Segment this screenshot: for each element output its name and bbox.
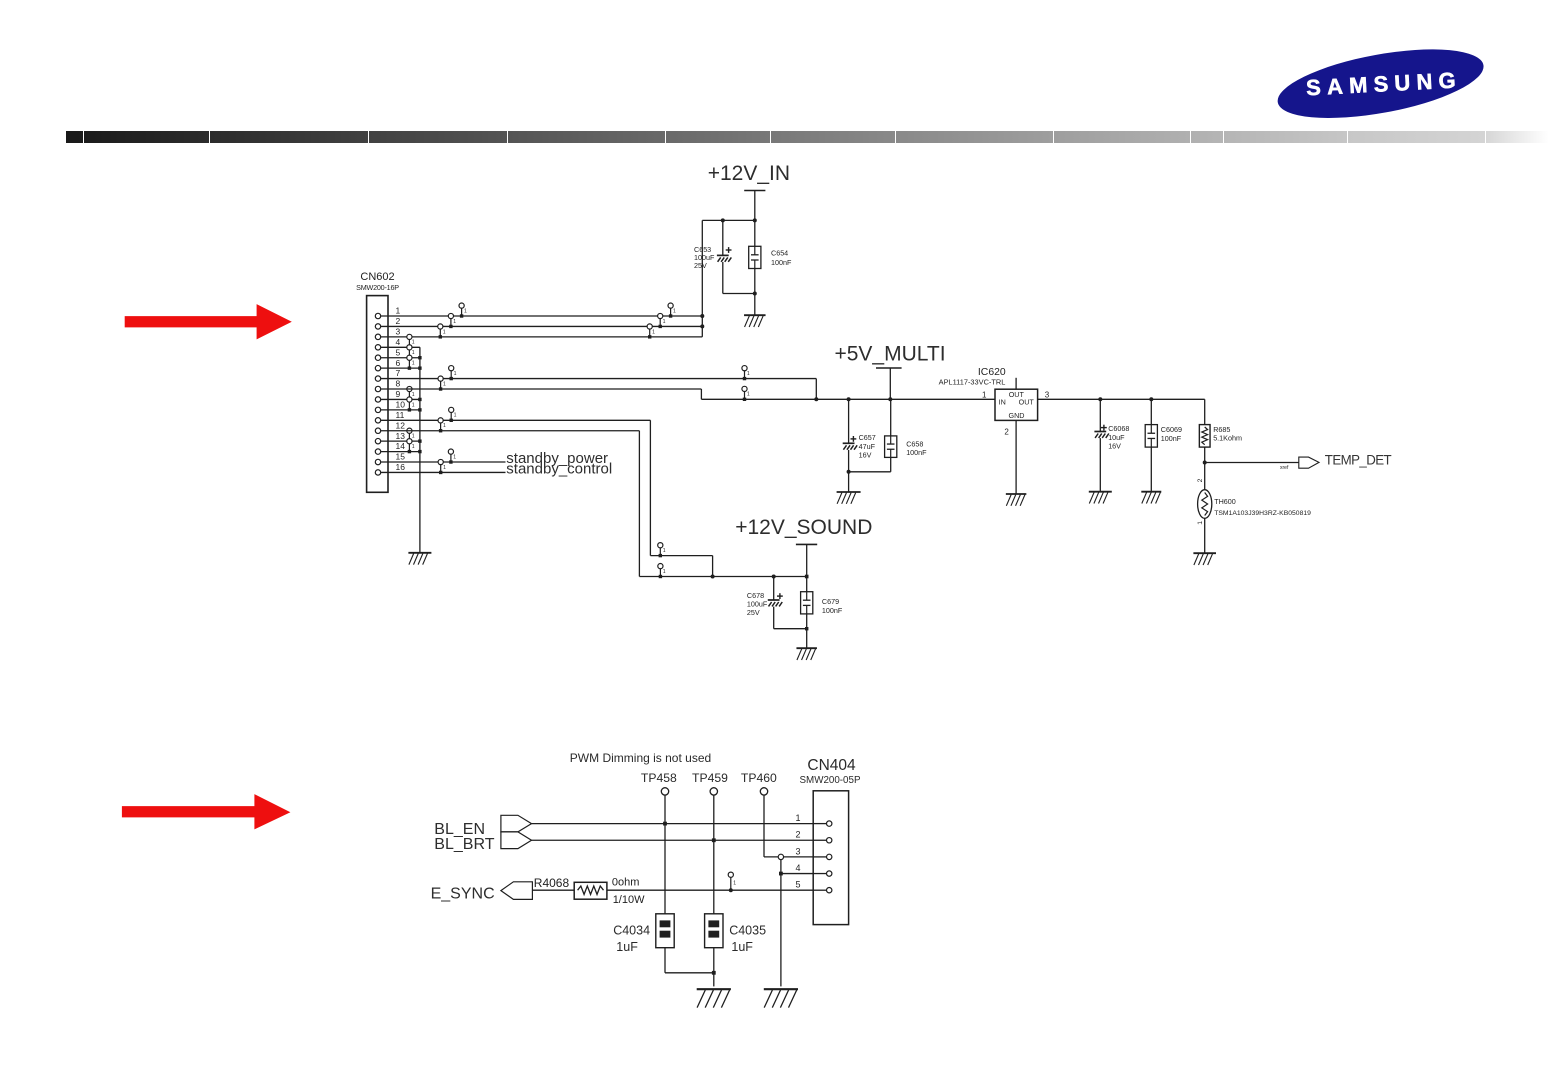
port flag BL_BRT [434, 832, 531, 853]
svg-text:TH600: TH600 [1214, 497, 1236, 506]
svg-text:15: 15 [396, 452, 406, 462]
svg-text:BL_BRT: BL_BRT [434, 836, 494, 853]
svg-text:APL1117-33VC-TRL: APL1117-33VC-TRL [939, 378, 1006, 387]
power symbol +12V_SOUND [735, 516, 872, 577]
svg-text:CN404: CN404 [807, 757, 856, 774]
svg-text:IN: IN [999, 398, 1006, 407]
svg-text:5: 5 [396, 347, 401, 357]
svg-text:1: 1 [663, 548, 666, 554]
port flag E_SYNC [431, 882, 533, 903]
ground under C4035 [697, 989, 731, 1007]
wire CN602 pin 16 standby_control [381, 459, 613, 477]
node TEMP_DET with xref flag [1203, 452, 1393, 471]
red arrow marker upper [0, 0, 400, 1080]
svg-text:SMW200-05P: SMW200-05P [800, 775, 861, 786]
svg-text:1: 1 [443, 423, 446, 429]
svg-text:1: 1 [412, 444, 415, 450]
svg-text:3: 3 [396, 326, 401, 336]
resistor R685 5.1Kohm [1199, 399, 1242, 462]
capacitor C679 100nF [801, 577, 843, 649]
wire CN602 pin 8, +5V rail into IC620 pin 1, with test beads [381, 376, 995, 401]
power symbol +12V_IN [708, 162, 790, 221]
svg-text:100nF: 100nF [1161, 434, 1182, 443]
capacitor C6068 10uF 16V (electrolytic) [1094, 399, 1129, 491]
svg-text:10: 10 [396, 399, 406, 409]
svg-text:1: 1 [453, 454, 456, 460]
svg-text:4: 4 [396, 337, 401, 347]
svg-text:2: 2 [795, 830, 800, 840]
svg-text:C6069: C6069 [1161, 425, 1182, 434]
svg-text:1uF: 1uF [731, 940, 753, 954]
port flag BL_EN [434, 815, 531, 838]
note PWM Dimming is not used [570, 751, 711, 765]
connector CN602 SMW200-16P, 16-pin header with pin numbers [356, 271, 405, 492]
svg-text:TEMP_DET: TEMP_DET [1325, 452, 1393, 467]
svg-text:GND: GND [1009, 411, 1025, 420]
ground under TH600 [1193, 553, 1216, 565]
svg-text:1: 1 [412, 361, 415, 367]
svg-text:16V: 16V [1108, 442, 1121, 451]
svg-text:47uF: 47uF [859, 442, 876, 451]
svg-text:1: 1 [733, 881, 736, 887]
svg-text:standby_control: standby_control [506, 461, 612, 478]
svg-text:PWM Dimming is not used: PWM Dimming is not used [570, 751, 711, 765]
svg-text:1: 1 [412, 392, 415, 398]
svg-text:C678: C678 [747, 591, 764, 600]
svg-text:1: 1 [443, 465, 446, 471]
svg-text:IC620: IC620 [978, 367, 1006, 378]
svg-text:+12V_SOUND: +12V_SOUND [735, 516, 872, 539]
svg-text:C4035: C4035 [729, 923, 766, 937]
ground under C654 [744, 315, 766, 327]
wire CN602 pin 12 to +12V_SOUND node with test beads and junctions [381, 418, 809, 579]
svg-text:11: 11 [396, 410, 405, 420]
svg-text:100nF: 100nF [771, 258, 792, 267]
wire IC620 pin 3 output rail [1038, 397, 1205, 401]
svg-text:xref: xref [1280, 465, 1289, 471]
power symbol +5V_MULTI [834, 343, 945, 402]
IC620 APL1117-33VC-TRL voltage regulator with pins 1 IN, 2 GND, 3 OUT [939, 367, 1050, 437]
ground under C6068 [1089, 492, 1112, 504]
svg-text:E_SYNC: E_SYNC [431, 885, 495, 902]
capacitor C6069 100nF [1145, 399, 1182, 491]
thermistor TH600 TSM1A103J39H3RZ-KB050819 with pins 2 and 1 [1197, 463, 1311, 553]
resistor R4068 0ohm 1/10W on E_SYNC wire to CN404 pin 5 [532, 872, 813, 906]
svg-text:25V: 25V [694, 261, 707, 270]
svg-text:3: 3 [795, 846, 800, 856]
capacitor C653 100uF 25V (electrolytic) [694, 220, 757, 295]
wire CN602 pin 15 standby_power [381, 449, 608, 467]
svg-text:3: 3 [1045, 390, 1050, 399]
decorative gradient bar [0, 131, 1560, 143]
capacitor C657 47uF 16V (electrolytic) [843, 397, 876, 491]
svg-text:1/10W: 1/10W [613, 894, 645, 906]
Samsung logo [0, 0, 1560, 160]
capacitor C658 100nF [849, 399, 928, 472]
svg-text:0ohm: 0ohm [612, 876, 640, 888]
svg-text:5.1Kohm: 5.1Kohm [1213, 434, 1242, 443]
ground under IC620 GND pin 2 [1006, 420, 1027, 505]
svg-text:1: 1 [453, 319, 456, 325]
svg-text:1: 1 [663, 569, 666, 575]
svg-text:C657: C657 [859, 433, 876, 442]
ground under C657 [837, 492, 861, 504]
svg-text:100uF: 100uF [747, 600, 768, 609]
ground under C679 [796, 648, 817, 660]
svg-text:1: 1 [412, 340, 415, 346]
svg-text:1: 1 [652, 329, 655, 335]
svg-text:1: 1 [412, 434, 415, 440]
svg-text:TSM1A103J39H3RZ-KB050819: TSM1A103J39H3RZ-KB050819 [1214, 510, 1311, 517]
svg-text:TP458: TP458 [641, 771, 677, 785]
svg-text:+5V_MULTI: +5V_MULTI [834, 343, 945, 366]
wire CN602 pin 7 to +5V rail with test beads [381, 366, 819, 402]
svg-text:1: 1 [673, 308, 676, 314]
svg-text:C4034: C4034 [613, 923, 650, 937]
svg-text:1: 1 [663, 319, 666, 325]
svg-text:7: 7 [396, 368, 401, 378]
ground under C6069 [1141, 492, 1161, 504]
svg-text:12: 12 [396, 420, 406, 430]
bus wire CN602 pins 4,5,6,9,10,13,14 tied to ground bus with test beads [381, 334, 422, 553]
svg-text:1: 1 [443, 381, 446, 387]
wire CN404 pin 4 to ground [779, 860, 813, 987]
svg-text:1: 1 [747, 392, 750, 398]
svg-text:R685: R685 [1213, 425, 1230, 434]
svg-text:1: 1 [443, 329, 446, 335]
svg-text:1: 1 [412, 350, 415, 356]
svg-text:1: 1 [464, 308, 467, 314]
capacitor C4034 1uF on TP458 line [613, 795, 716, 975]
svg-text:C658: C658 [906, 439, 923, 448]
svg-text:OUT: OUT [1019, 398, 1035, 407]
svg-text:1: 1 [795, 813, 800, 823]
svg-text:TP459: TP459 [692, 771, 728, 785]
wire +12V_IN node [702, 218, 757, 222]
svg-text:1: 1 [412, 402, 415, 408]
svg-text:100nF: 100nF [906, 448, 927, 457]
svg-text:6: 6 [396, 358, 401, 368]
svg-text:TP460: TP460 [741, 771, 777, 785]
svg-text:16V: 16V [859, 451, 872, 460]
svg-text:SMW200-16P: SMW200-16P [356, 283, 399, 292]
test point TP460 [741, 771, 777, 795]
wire net pins 1-3 of CN602 to +12V_IN riser, with test beads and junctions [381, 220, 705, 338]
ground under CN602 bus [408, 553, 431, 565]
svg-text:4: 4 [795, 863, 800, 873]
svg-text:1: 1 [1197, 521, 1204, 525]
svg-text:2: 2 [1004, 428, 1009, 437]
wire BL_BRT to CN404 pin 2 [532, 838, 814, 842]
svg-text:+12V_IN: +12V_IN [708, 162, 790, 185]
svg-text:C654: C654 [771, 248, 788, 257]
svg-text:1uF: 1uF [616, 940, 638, 954]
ground under CN404 pin 4 drop [764, 989, 798, 1007]
svg-text:1: 1 [454, 371, 457, 377]
svg-text:R4068: R4068 [534, 876, 570, 890]
svg-text:1: 1 [454, 413, 457, 419]
red arrow marker lower [122, 794, 291, 829]
svg-text:13: 13 [396, 431, 406, 441]
svg-text:C6068: C6068 [1108, 424, 1129, 433]
svg-text:2: 2 [1197, 478, 1204, 482]
svg-text:8: 8 [396, 379, 401, 389]
capacitor C654 100nF [749, 220, 792, 315]
wire BL_EN to CN404 pin 1 [532, 822, 814, 826]
svg-text:5: 5 [795, 880, 800, 890]
svg-text:16: 16 [396, 462, 406, 472]
wire TP460 to CN404 pin 3 [764, 795, 813, 860]
test point TP459 [692, 771, 728, 795]
svg-text:1: 1 [396, 306, 401, 316]
svg-text:C679: C679 [822, 597, 839, 606]
svg-text:1: 1 [747, 371, 750, 377]
wire CN602 pin 11 to +12V_SOUND node with test beads [381, 407, 713, 576]
capacitor C678 100uF 25V (electrolytic) [747, 577, 807, 629]
svg-text:CN602: CN602 [360, 271, 394, 283]
svg-text:2: 2 [396, 316, 401, 326]
test point TP458 [641, 771, 677, 795]
svg-text:14: 14 [396, 441, 406, 451]
capacitor C4035 1uF on TP459 line [705, 795, 766, 986]
svg-text:10uF: 10uF [1108, 433, 1125, 442]
svg-text:100nF: 100nF [822, 606, 843, 615]
svg-text:9: 9 [396, 389, 401, 399]
svg-text:1: 1 [982, 390, 987, 399]
connector CN404 SMW200-05P, 5-pin header with pin numbers [795, 757, 860, 925]
svg-text:25V: 25V [747, 608, 760, 617]
